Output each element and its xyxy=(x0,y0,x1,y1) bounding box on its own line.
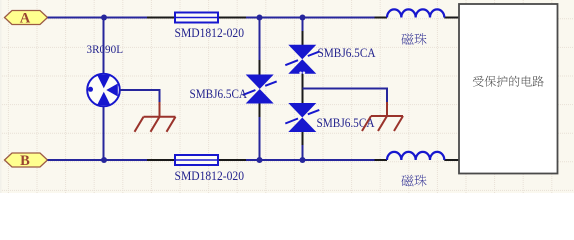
wire: TVS D3 column bottom segment xyxy=(302,145,304,160)
pin: TVS D1 bottom xyxy=(259,103,261,118)
wire: TVS midpoint to ground 2 xyxy=(303,89,388,104)
fuse F2 body SMD1812-020 xyxy=(147,155,246,165)
port B xyxy=(5,153,48,169)
TVS diode D3 SMBJ6.5CA xyxy=(285,103,319,132)
svg-text:3R090L: 3R090L xyxy=(87,43,124,56)
junction: top rail / TVS D2 column xyxy=(300,15,306,21)
inductor L2 ferrite bead xyxy=(375,152,460,160)
wire: top rail down to GDT G1 xyxy=(103,18,105,75)
ground symbol at TVS pair xyxy=(362,116,403,131)
protected circuit box 受保护的电路 xyxy=(459,4,558,174)
junction: bottom rail / TVS D1 column xyxy=(257,157,263,163)
pin: TVS D2 top xyxy=(302,31,304,45)
junction: top rail / GDT column xyxy=(101,15,107,21)
ground stem (red) at G1 xyxy=(159,102,161,117)
wire: TVS D2 column top segment xyxy=(302,18,304,33)
svg-text:A: A xyxy=(20,11,31,27)
gas discharge tube G1 3R090L xyxy=(87,74,120,107)
wire: fuse F2 to inductor L2 xyxy=(246,159,375,161)
wire: port A to fuse F1 xyxy=(48,17,148,19)
wire: fuse F1 to inductor L1 xyxy=(246,17,375,19)
inductor L1 ferrite bead xyxy=(375,9,460,17)
svg-text:SMBJ6.5CA: SMBJ6.5CA xyxy=(190,87,248,101)
wire: port B to fuse F2 xyxy=(48,159,148,161)
svg-text:SMD1812-020: SMD1812-020 xyxy=(175,26,245,40)
pin: TVS D1 top xyxy=(259,60,261,75)
junction: bottom rail / GDT column xyxy=(101,157,107,163)
svg-text:SMBJ6.5CA: SMBJ6.5CA xyxy=(318,46,376,60)
ground symbol at G1 xyxy=(135,117,176,132)
label 受保护的电路 xyxy=(473,76,544,87)
wire: GDT G1 down to bottom rail xyxy=(103,106,105,160)
ground stem (red) at TVS pair xyxy=(386,102,388,116)
TVS diode D2 SMBJ6.5CA xyxy=(285,45,319,74)
TVS diode D1 SMBJ6.5CA xyxy=(243,75,277,104)
pin: TVS D3 bottom xyxy=(302,131,304,146)
port A xyxy=(5,11,48,27)
wire: TVS D1 column upper segment xyxy=(259,18,261,62)
svg-text:SMD1812-020: SMD1812-020 xyxy=(175,169,245,183)
junction: top rail / TVS D1 column xyxy=(257,15,263,21)
label L1 磁珠 xyxy=(401,33,426,45)
fuse F1 body SMD1812-020 xyxy=(147,13,246,23)
wire: GDT G1 to ground xyxy=(120,90,160,103)
pin: TVS D2 bottom / D3 top (middle) xyxy=(302,73,304,104)
junction: bottom rail / TVS D2 column xyxy=(300,157,306,163)
label L2 磁珠 xyxy=(401,175,426,187)
svg-text:B: B xyxy=(20,153,30,169)
wire: TVS D1 column lower segment xyxy=(259,117,261,160)
